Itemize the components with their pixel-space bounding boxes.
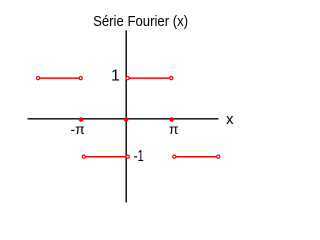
filled point (-pi,0) [79,117,84,122]
open endpoint circle (pi,-1) [173,155,176,158]
segment y=1 right (0,pi) [128,77,172,79]
open endpoint circle (0,-1) [126,155,129,158]
filled point (0,0) [124,117,129,122]
svg-text:x: x [226,111,234,128]
open endpoint circle (pi,1) [170,77,173,80]
svg-text:π: π [169,121,179,137]
svg-text:-1: -1 [134,148,144,165]
segment y=-1 right (pi,2pi) [174,156,218,158]
svg-text:1: 1 [111,68,120,85]
segment y=-1 left (-pi,0) [84,156,128,158]
open endpoint circle (-pi,-1) [82,155,85,158]
x-axis [28,118,219,120]
open endpoint circle (0,1) [126,77,129,80]
open endpoint circle (-2pi,1) [37,77,40,80]
y-axis [125,30,127,202]
svg-text:-π: -π [71,121,86,137]
open endpoint circle (-pi,1) [79,77,82,80]
filled point (pi,0) [169,117,174,122]
svg-text:Série Fourier (x): Série Fourier (x) [93,14,188,30]
open endpoint circle (2pi,-1) [217,155,220,158]
segment y=1 left (-2pi,-pi) [38,77,81,79]
